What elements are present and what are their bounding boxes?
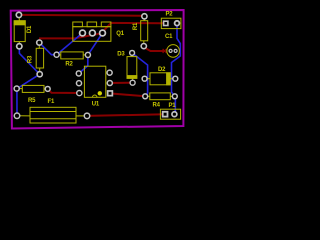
pad D3.1	[129, 50, 135, 56]
pad U1.3	[76, 70, 83, 77]
wire: blue R2 left pad up to Q1 pin1	[57, 33, 83, 55]
pad P1.1 (square)	[162, 111, 169, 118]
pad Q1.2	[89, 29, 97, 37]
pad U1.6 (square)	[107, 90, 113, 96]
resistor R5 outline	[17, 85, 48, 92]
board outline (Edge.Cuts)	[11, 10, 184, 129]
capacitor C1 outline	[167, 45, 180, 58]
svg-text:R2: R2	[65, 62, 73, 68]
wire: F1 right pad to P1 pad1 (bottom long trace)	[87, 114, 165, 116]
connector P2 outline	[161, 18, 181, 28]
pad F1.2	[84, 112, 91, 119]
pad R5.2	[45, 86, 51, 92]
pad P2.2	[174, 20, 181, 27]
wire: R1 bottom pad to C1 pad	[144, 46, 165, 51]
pad R3.1	[36, 39, 43, 46]
pad D2.1	[141, 76, 147, 82]
pad R1.2	[140, 43, 147, 50]
wire: blue R2 right pad to Q1 pin3	[88, 33, 103, 55]
svg-text:R5: R5	[28, 98, 36, 104]
wire: U1 pin1 to R4 left pad	[110, 93, 145, 96]
pad Q1.1	[79, 29, 87, 37]
svg-text:R1: R1	[133, 22, 139, 30]
pad U1.4	[106, 69, 113, 76]
pad D1.1	[15, 11, 22, 18]
pad U1.5	[107, 80, 114, 87]
pad C1.1	[169, 49, 173, 53]
wire: Q1 pin2 to P2 pad1	[103, 23, 166, 32]
wire: blue D3 top pad to R4 left pad	[132, 53, 148, 96]
wire: blue P2 pad2 down right side to R4 right pad and P1 pad2	[172, 23, 181, 114]
fuse F1 outline	[17, 107, 87, 123]
pad U1.2	[76, 80, 83, 87]
svg-text:R3: R3	[28, 55, 34, 63]
diode D2 outline	[145, 73, 176, 85]
wire: blue R3 top pad to R2 left pad	[39, 43, 56, 55]
pad F1.1	[14, 112, 21, 119]
transistor Q1 (TO-220) outline	[73, 22, 111, 41]
pad D2.2	[172, 76, 178, 82]
svg-text:R4: R4	[153, 102, 161, 108]
wire: R5 right pad to U1 pin	[48, 89, 80, 93]
pad R4.1	[142, 93, 148, 99]
svg-text:P2: P2	[166, 11, 174, 17]
IC U1 (DIP-6) outline	[84, 66, 105, 97]
wire: net from D1 top pad to R1 top pad (top layer)	[19, 15, 144, 16]
svg-text:F1: F1	[48, 99, 55, 105]
wire: blue net D1 bottom - R3 bottom - R5 left - F1 left (back layer)	[17, 46, 40, 116]
pad U1.1	[76, 90, 83, 97]
resistor R2 outline	[57, 52, 88, 59]
pad D1.2	[16, 43, 23, 50]
pad R4.2	[172, 93, 178, 99]
svg-text:U1: U1	[92, 102, 100, 108]
wire: blue R2 right pad down to U1 top-left pin	[79, 55, 88, 74]
svg-text:D2: D2	[158, 67, 166, 73]
svg-text:D1: D1	[27, 25, 33, 33]
svg-text:Q1: Q1	[116, 31, 124, 37]
diode D1 outline	[14, 15, 25, 46]
wire: R3 top pad to Q1 pin3	[39, 33, 103, 38]
resistor R3 outline	[36, 43, 43, 75]
pad P2.1 (square)	[163, 20, 169, 26]
pad Q1.3	[99, 29, 107, 37]
pad D3.2	[129, 80, 135, 86]
pad R2.2	[85, 52, 92, 59]
pad R5.1	[13, 85, 20, 92]
svg-text:P1: P1	[169, 103, 177, 109]
resistor R1 outline	[141, 16, 148, 46]
pad R2.1	[53, 51, 60, 58]
junction X at C1 pad1	[163, 49, 167, 53]
wire: U1 pin to D3 bottom pad	[110, 82, 133, 84]
connector P1 outline	[160, 109, 180, 119]
pad R1.1	[141, 13, 148, 20]
resistor R4 outline	[145, 93, 175, 100]
pad P1.2	[171, 111, 178, 118]
diode D3 outline	[127, 53, 137, 83]
pad C1.2	[174, 49, 178, 53]
svg-text:C1: C1	[165, 34, 173, 40]
pad R3.2	[36, 71, 43, 78]
svg-text:D3: D3	[117, 52, 125, 58]
